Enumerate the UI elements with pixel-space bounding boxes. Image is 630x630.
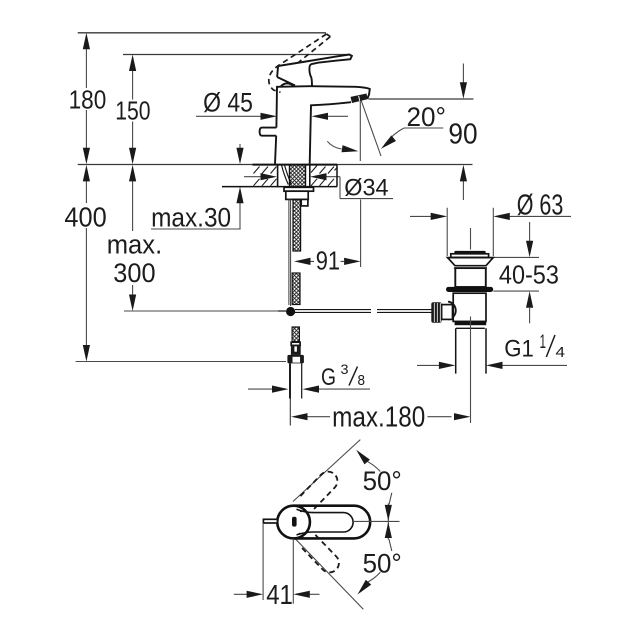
svg-text:91: 91 [316, 246, 340, 276]
svg-text:max.30: max.30 [151, 203, 231, 233]
svg-text:8: 8 [358, 372, 366, 389]
svg-text:G1: G1 [504, 336, 534, 363]
svg-text:180: 180 [69, 84, 107, 114]
svg-text:400: 400 [64, 202, 106, 233]
svg-text:Ø 45: Ø 45 [203, 88, 253, 118]
svg-text:41: 41 [266, 579, 293, 610]
svg-text:90: 90 [448, 119, 477, 151]
svg-text:300: 300 [113, 258, 155, 288]
svg-text:20°: 20° [407, 102, 447, 132]
svg-text:4: 4 [556, 344, 566, 361]
svg-text:3: 3 [341, 361, 349, 377]
svg-text:Ø34: Ø34 [344, 175, 388, 202]
svg-text:1: 1 [540, 332, 547, 353]
svg-text:max.180: max.180 [332, 402, 425, 434]
svg-text:max.: max. [107, 229, 163, 259]
svg-text:G: G [321, 364, 336, 391]
svg-text:Ø 63: Ø 63 [517, 190, 564, 222]
svg-text:150: 150 [115, 96, 150, 126]
svg-text:40-53: 40-53 [499, 259, 559, 289]
svg-text:50°: 50° [363, 466, 402, 496]
svg-text:50°: 50° [363, 549, 402, 579]
